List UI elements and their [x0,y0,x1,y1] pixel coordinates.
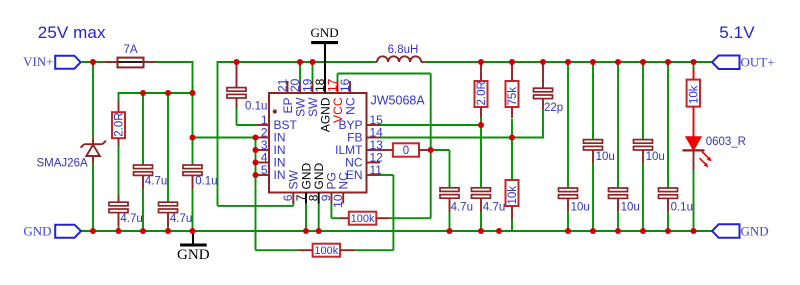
wire C8 to FB [542,110,544,139]
capacitor C8 22p [542,64,544,88]
wire SW line [218,61,376,63]
wire EN [380,174,393,176]
resistor R8 10k [511,138,513,181]
pin 15 BYP [367,124,381,126]
wire R7 to FB [511,119,513,138]
wire VIN down to D1 [92,62,94,138]
capacitor 10u col618 [617,62,619,188]
svg-text:0.1u: 0.1u [671,202,693,214]
svg-text:10u: 10u [621,202,640,214]
wire ILMT [380,149,393,151]
pin 14 FB [367,137,381,139]
pin 9 PG [330,193,332,204]
wire bus-192 down [192,93,194,165]
resistor R7 75k [511,64,513,81]
node out-643 [640,59,646,65]
node out-618 [615,59,621,65]
fuse F1 7A [104,61,118,63]
capacitor 0.1u col668 [667,62,669,188]
capacitor 10u col643 [642,62,644,140]
svg-text:10: 10 [331,194,345,208]
resistor R3 2.0R [480,64,482,81]
node BST cap top [234,59,240,65]
svg-text:10k: 10k [689,85,701,104]
node SW20 [297,59,303,65]
node IN pin4 [253,160,259,166]
node bus-143 [140,90,146,96]
node rail-93 [90,228,96,234]
wire BYP to C7 [480,125,482,188]
svg-text:10k: 10k [507,186,519,205]
node bus-192 [190,90,196,96]
node rail-480 [478,228,484,234]
svg-text:6.8uH: 6.8uH [388,44,419,56]
node rail stray [496,228,502,234]
wire C5 to rail [192,189,194,231]
node rail-143 [140,228,146,234]
svg-text:GND: GND [741,223,769,238]
wire C7 to rail [480,212,482,231]
svg-text:10u: 10u [571,202,590,214]
pin 4 IN [257,162,270,164]
wire VCC [337,74,339,82]
pin 21 EP [287,81,289,93]
svg-text:2.0R: 2.0R [476,81,488,105]
wire input bus y93 [118,92,193,94]
wire C6 to rail [449,212,451,231]
pin 3 IN [257,149,270,151]
svg-text:4.7u: 4.7u [145,176,167,188]
node ILMT [428,147,434,153]
gnd rail wire [81,230,712,232]
node rail-668 [665,228,671,234]
node FB-75k [509,135,515,141]
svg-text:0603_R: 0603_R [706,136,746,148]
wire R6 to IN strap [256,249,299,251]
op-amp U1 JW5068A body [269,93,367,193]
svg-text:75k: 75k [507,87,519,106]
resistor R6 100k [313,244,341,257]
svg-text:OUT+: OUT+ [741,55,775,70]
pin 17 VCC [337,81,339,93]
wire fuse to corner [156,61,193,63]
node rail-568 [565,228,571,234]
resistor R6 leads [340,249,354,251]
pin 2 IN [257,137,270,139]
node SW19 [310,59,316,65]
resistor R4 0R [393,143,419,156]
node rail-192 [190,228,196,234]
capacitor C1 0.1u [236,64,238,88]
svg-text:0: 0 [403,145,409,157]
wire LED to rail [693,170,695,231]
node rail-306 [303,228,309,234]
pin 12 NC [367,162,381,164]
wire pin7 gnd [305,204,307,232]
node R7 top [509,59,515,65]
wire ILMT right [431,149,450,151]
node bus-168 [165,90,171,96]
svg-text:5: 5 [261,163,268,177]
wire SW down-around [217,61,219,206]
node VIN [90,59,96,65]
svg-text:10u: 10u [646,151,665,163]
svg-text:SMAJ26A: SMAJ26A [37,158,88,170]
wire SW20 up [299,62,301,81]
LED D2 0603_R [686,137,701,150]
node IN pin5 [253,172,259,178]
svg-text:GND: GND [177,247,210,263]
svg-text:100k: 100k [314,245,338,257]
wire C2 to rail [118,227,120,231]
svg-text:16: 16 [338,78,352,92]
wire C1 to BST [236,108,238,125]
svg-text:0.1u: 0.1u [245,101,267,113]
node C8 top [540,59,546,65]
pin 20 SW [299,81,301,93]
svg-text:NC: NC [343,97,357,115]
svg-text:NC: NC [337,172,351,190]
port GND left [55,225,81,238]
wire D1 to gnd rail [92,164,94,231]
wire VIN+ to node [81,61,104,63]
capacitor 10u col593 [592,62,594,140]
pin 13 ILMT [367,149,381,151]
svg-text:7A: 7A [123,44,137,56]
node rail-618 [615,228,621,234]
capacitor C7 4.7u [472,188,491,192]
svg-text:100k: 100k [351,213,375,225]
svg-text:10u: 10u [596,151,615,163]
node rail-693 [691,228,697,234]
node rail-168 [165,228,171,234]
svg-text:JW5068A: JW5068A [371,93,426,107]
svg-text:VIN+: VIN+ [23,54,53,69]
node out-593 [590,59,596,65]
pin 5 IN [257,174,270,176]
wire SW19 up [312,62,314,81]
svg-text:25V max: 25V max [38,23,106,42]
svg-text:4.7u: 4.7u [451,201,473,213]
svg-text:5.1V: 5.1V [719,23,755,42]
svg-text:GND: GND [23,223,51,238]
capacitor C2 4.7u [118,195,120,202]
wire C4 to rail [167,227,169,231]
node IN pin2 [253,135,259,141]
port OUT+ [712,56,739,70]
wire bus to R2 [118,92,120,101]
pin 16 NC [349,81,351,93]
port VIN+ [55,56,80,69]
node R3 top [478,59,484,65]
svg-text:0.1u: 0.1u [195,176,217,188]
node out-568 [565,59,571,65]
capacitor C3 4.7u [134,165,153,169]
svg-text:22p: 22p [544,102,563,114]
TVS diode D1 SMAJ26A [92,138,94,145]
wire PG [330,204,332,219]
node rail-643 [640,228,646,234]
svg-text:4.7u: 4.7u [483,201,505,213]
node LED top [691,59,697,65]
node rail-318 [316,228,322,234]
wire bus to C4 [167,93,169,202]
wire C3 to rail [142,189,144,231]
svg-text:IN: IN [274,168,286,182]
node out-668 [665,59,671,65]
pin 8 GND [318,193,320,204]
node rail-118 [116,228,122,234]
wire BYP [380,124,481,126]
capacitor C6 4.7u [440,188,459,192]
port GND right [712,224,739,238]
pin 6 SW [292,193,294,204]
resistor R2 2.0R [118,101,120,113]
wire IN strap [255,138,257,251]
node IN-192 [190,135,196,141]
inductor L1 6.8uH [376,61,377,63]
capacitor 10u col568 [567,62,569,188]
resistor R9 10k [693,64,695,70]
wire R3 to BYP [480,118,482,125]
wire R2 to C2 [118,146,120,195]
node rail-593 [590,228,596,234]
capacitor C5 0.1u [183,165,202,169]
node IN pin3 [253,147,259,153]
resistor R5 100k [349,212,377,225]
ground symbol bottom [192,231,194,244]
ground symbol top [324,44,326,81]
wire R5 to VCC node [389,217,431,219]
pin 18 AGND [324,81,326,93]
svg-text:2.0R: 2.0R [114,112,126,136]
pin 10 NC [342,193,344,204]
node rail-449 [447,228,453,234]
pin 19 SW [312,81,314,93]
pin 11 EN [367,174,381,176]
wire IN to pin2 [193,137,256,139]
pin 1 BST [257,124,270,126]
wire R8 to rail [511,219,513,231]
wire FB [380,137,543,139]
pin 7 GND [305,193,307,204]
wire pin8 gnd [318,204,320,232]
svg-text:4.7u: 4.7u [120,213,142,225]
svg-text:GND: GND [311,25,339,40]
wire output line [425,61,712,63]
node BYP [478,122,484,128]
wire bus to C3 [142,93,144,165]
capacitor C4 4.7u [159,202,178,206]
svg-text:4.7u: 4.7u [170,213,192,225]
